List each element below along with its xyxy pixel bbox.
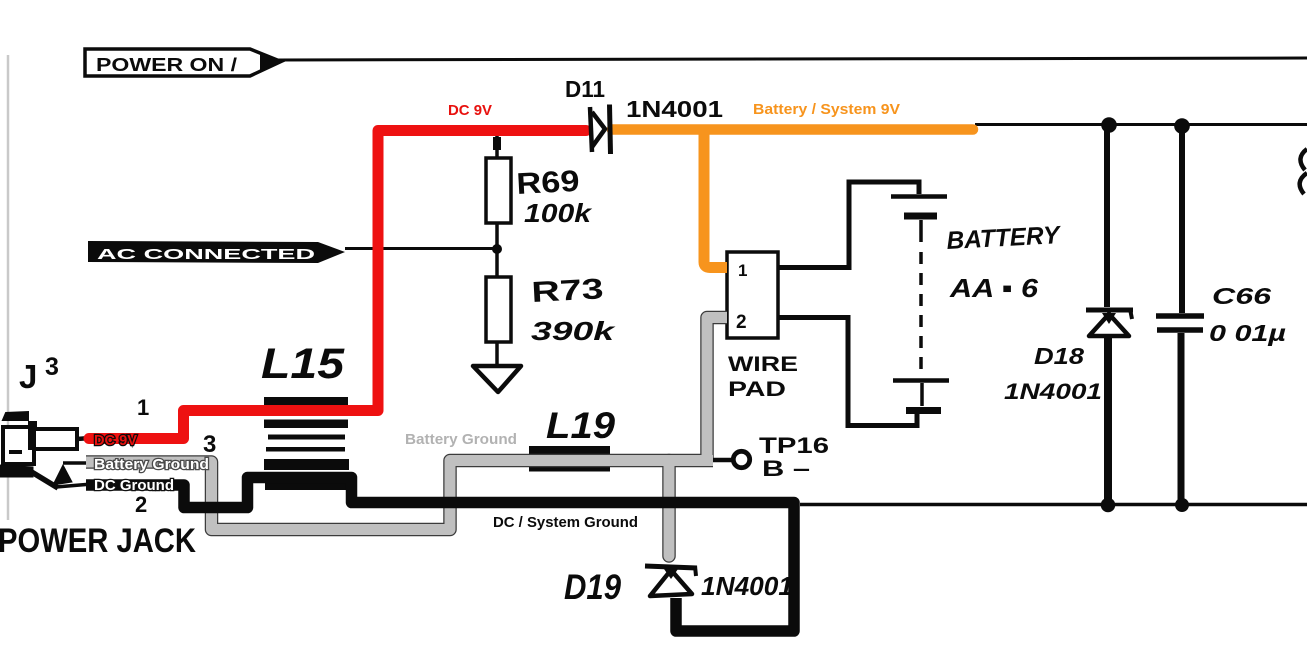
svg-text:C66: C66 <box>1212 283 1271 309</box>
svg-text:3: 3 <box>45 353 59 381</box>
svg-text:TP16: TP16 <box>759 433 829 458</box>
svg-text:POWER ON /: POWER ON / <box>96 55 237 75</box>
svg-text:DC / System Ground: DC / System Ground <box>493 514 638 531</box>
svg-text:AC CONNECTED: AC CONNECTED <box>97 246 315 263</box>
svg-text:POWER JACK: POWER JACK <box>0 522 196 560</box>
svg-text:PAD: PAD <box>728 378 786 401</box>
svg-text:1: 1 <box>137 395 149 420</box>
svg-text:1N4001: 1N4001 <box>626 96 723 122</box>
svg-text:D18: D18 <box>1034 343 1084 369</box>
svg-text:Battery Ground: Battery Ground <box>405 431 517 448</box>
svg-text:DC Ground: DC Ground <box>94 477 174 494</box>
svg-text:L19: L19 <box>546 405 615 446</box>
svg-text:390k: 390k <box>531 316 616 346</box>
svg-text:Battery / System 9V: Battery / System 9V <box>753 101 900 118</box>
svg-text:WIRE: WIRE <box>728 353 798 376</box>
svg-text:R69: R69 <box>516 165 581 201</box>
svg-text:DC 9V: DC 9V <box>448 102 492 119</box>
svg-text:Battery Ground: Battery Ground <box>94 456 209 473</box>
svg-text:100k: 100k <box>524 198 593 228</box>
svg-text:J: J <box>19 358 37 395</box>
svg-text:AA ▪ 6: AA ▪ 6 <box>949 273 1039 303</box>
svg-text:3: 3 <box>203 431 216 458</box>
svg-text:R73: R73 <box>531 273 605 309</box>
svg-text:2: 2 <box>736 312 747 333</box>
svg-text:2: 2 <box>135 492 147 517</box>
svg-text:1N4001: 1N4001 <box>701 571 793 601</box>
svg-text:D11: D11 <box>565 76 605 102</box>
svg-text:D19: D19 <box>564 568 621 607</box>
svg-text:DC 9V: DC 9V <box>94 432 137 449</box>
svg-text:L15: L15 <box>261 340 345 388</box>
svg-text:1N4001: 1N4001 <box>1004 379 1102 404</box>
svg-text:B –: B – <box>762 456 810 481</box>
svg-text:0 01µ: 0 01µ <box>1209 320 1286 346</box>
svg-text:1: 1 <box>738 261 747 280</box>
